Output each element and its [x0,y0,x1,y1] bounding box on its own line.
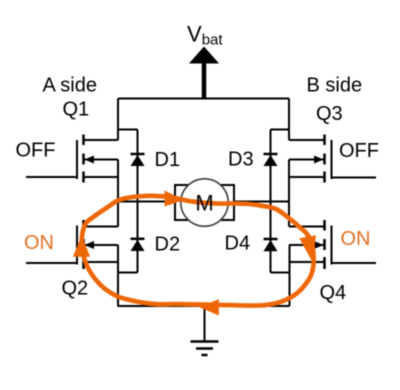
wire Q2 gate lead [26,262,77,264]
wire Q1 source tap [84,176,119,178]
svg-text:OFF: OFF [16,140,56,162]
wire left lower vertical [117,245,119,306]
wire left drain vertical [117,99,119,141]
svg-text:ON: ON [24,232,54,254]
wire D4 jog [271,272,290,274]
svg-text:M: M [195,191,213,216]
wire Q3 gate lead [332,177,377,179]
transistor Q1 [77,135,118,183]
svg-text:D3: D3 [228,149,254,171]
wire top rail [118,98,289,100]
battery Vbat arrow [189,47,219,64]
svg-text:ON: ON [341,228,371,250]
wire Q4 drain tap [289,226,325,228]
wire Q4 source tap [289,261,325,263]
diode D2 [131,239,145,251]
wire D4 vertical [270,202,272,273]
diode D4 [264,239,278,251]
wire right lower vertical [289,245,291,306]
svg-text:OFF: OFF [339,140,379,162]
current arrow into motor [165,191,185,207]
current arrow at Q4 [299,235,316,263]
wire Q1 gate lead [26,176,77,178]
svg-text:Q2: Q2 [62,278,89,300]
wire D1 jog [118,129,138,131]
transistor Q4 [289,220,332,269]
svg-text:Q1: Q1 [63,99,90,121]
svg-text:D4: D4 [225,233,251,255]
wire bottom rail [118,305,290,307]
wire D2 jog [118,272,138,274]
current loop [82,196,314,306]
transistor Q2 [77,220,118,269]
wire Q3 drain tap [289,139,325,141]
wire D3 jog [271,129,290,131]
wire Q2 drain tap [84,226,119,228]
svg-text:D1: D1 [155,149,181,171]
diode D3 [264,154,278,166]
current arrow bottom [199,299,219,315]
svg-text:A side: A side [43,75,97,97]
svg-text:Q4: Q4 [320,282,347,304]
wire motor left [118,201,175,203]
wire ground stub [204,306,206,342]
wire Q4 gate lead [332,262,377,264]
wire D1 vertical [137,130,139,202]
transistor Q3 [289,135,332,183]
wire node A vertical [117,160,119,227]
motor M [175,179,234,226]
svg-text:D2: D2 [155,234,181,256]
wire Q2 source tap [84,261,119,263]
wire Q1 drain tap [84,139,119,141]
ground [191,342,219,356]
wire motor right [234,201,289,203]
wire D2 vertical [137,202,139,273]
svg-text:Q3: Q3 [316,103,343,125]
current arrow at Q2 [73,236,90,257]
svg-text:B side: B side [307,75,363,97]
wire Q3 source tap [289,176,325,178]
wire D3 vertical [270,130,272,202]
diode D1 [131,154,145,166]
wire node B vertical [288,160,290,227]
wire right drain vertical [288,99,290,141]
wire Vbat stub [202,60,207,99]
